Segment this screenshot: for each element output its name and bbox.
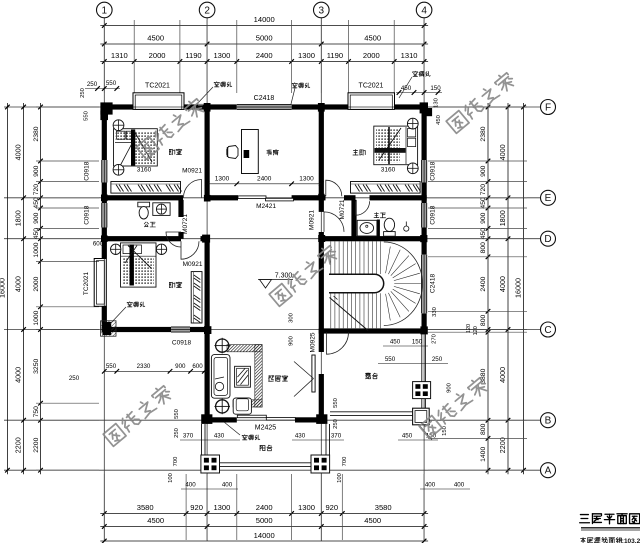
ac hole label top-mid with leader — [294, 82, 296, 85]
column axis4/D — [420, 235, 427, 242]
svg-text:400: 400 — [454, 482, 465, 489]
staircase centre island — [329, 274, 384, 292]
axis circle A — [541, 463, 556, 478]
door M0921 hall to master corridor (in wall axis3) — [324, 212, 344, 232]
svg-text:1300: 1300 — [299, 176, 314, 183]
svg-text:D: D — [544, 234, 551, 245]
wall axis3 vertical M0925 to B — [319, 374, 324, 423]
bed master bedroom — [374, 126, 418, 165]
wall left axis1 upper — [102, 104, 107, 160]
right dimension line col3 16000 — [523, 103, 525, 474]
svg-text:TC2021: TC2021 — [359, 83, 384, 90]
svg-text:800: 800 — [480, 242, 487, 254]
svg-text:14000: 14000 — [254, 15, 275, 24]
level mark 7.300 — [258, 279, 293, 281]
top extension lines — [103, 20, 105, 93]
bottom dimension line row3 14000 — [100, 540, 428, 542]
svg-text:2000: 2000 — [33, 276, 40, 291]
svg-text:2000: 2000 — [363, 51, 380, 60]
svg-text:1300: 1300 — [213, 51, 230, 60]
svg-text:800: 800 — [480, 423, 487, 435]
watermark tuzhizhijia 2 — [268, 243, 339, 306]
right extension lines — [428, 106, 527, 108]
svg-text:2380: 2380 — [480, 126, 487, 141]
wall master bath west — [351, 200, 356, 239]
svg-text:1190: 1190 — [185, 51, 201, 60]
balcony side rails west — [201, 424, 203, 456]
wall axis3 vertical door to C — [319, 232, 324, 330]
svg-text:2330: 2330 — [137, 363, 151, 370]
wall axis2 vertical F to E — [205, 104, 210, 197]
wall top F left segment — [102, 104, 133, 109]
svg-text:450: 450 — [480, 197, 487, 209]
svg-text:550: 550 — [333, 398, 339, 408]
svg-text:370: 370 — [331, 433, 342, 440]
wall right axis4 mid — [422, 183, 427, 204]
svg-text:14000: 14000 — [254, 531, 275, 540]
grid line axis A horizontal — [4, 469, 540, 471]
bottom dimension line row1 subdivisions — [100, 513, 428, 515]
toilet master bath — [384, 218, 394, 231]
svg-text:250: 250 — [80, 88, 86, 98]
floor drain master bath — [405, 222, 407, 227]
svg-text:F: F — [545, 102, 551, 113]
column axis1/C with hatch — [101, 321, 116, 336]
bottom dimension line row2 4500 5000 4500 — [100, 526, 428, 528]
svg-text:250: 250 — [432, 356, 443, 363]
window C0918 left wall public bath — [102, 203, 107, 228]
wall E right (master south) segments with door openings — [319, 195, 326, 200]
column axis2/F — [204, 103, 211, 112]
axis circle B — [541, 413, 556, 428]
column axis3/B (balcony NE) — [316, 414, 327, 424]
grid line axis 1 vertical — [103, 18, 105, 541]
svg-text:2380: 2380 — [33, 126, 40, 141]
svg-text:1300: 1300 — [215, 176, 230, 183]
svg-text:450: 450 — [402, 433, 413, 440]
svg-text:2200: 2200 — [33, 437, 40, 452]
svg-text:600: 600 — [93, 241, 104, 248]
svg-text:B: B — [545, 416, 552, 427]
wall C bedroom3 south right segment — [190, 327, 210, 332]
staircase winder treads fan — [386, 247, 391, 274]
svg-text:250: 250 — [69, 375, 80, 382]
svg-text::103.2: :103.2 — [622, 538, 640, 543]
svg-text:C0918: C0918 — [430, 161, 437, 181]
wall left axis1 below second window — [102, 228, 107, 259]
svg-text:450: 450 — [436, 115, 442, 125]
svg-text:C0918: C0918 — [430, 205, 437, 225]
window C0918 right wall master bedroom — [422, 160, 427, 183]
title third floor plan — [580, 514, 588, 516]
axis circle C — [541, 322, 556, 337]
svg-text:3: 3 — [319, 5, 325, 16]
svg-text:750: 750 — [33, 406, 40, 418]
balcony column SW 4-dot — [201, 455, 220, 473]
svg-text:7.300: 7.300 — [275, 273, 293, 280]
svg-text:430: 430 — [295, 433, 306, 440]
wall top F between bay and window C2418 — [184, 104, 237, 109]
staircase outer curve — [384, 242, 423, 326]
svg-text:1: 1 — [102, 5, 108, 16]
ac hole label balcony with leader — [244, 434, 246, 437]
svg-text:900: 900 — [480, 165, 487, 177]
svg-text:C2418: C2418 — [430, 274, 437, 294]
grid line axis 4 vertical — [423, 18, 425, 541]
column axis3/D — [318, 235, 325, 242]
svg-text:1300: 1300 — [298, 503, 315, 512]
window C0918 right wall master bath — [422, 203, 427, 228]
right dimension line col1 subdivisions — [487, 103, 489, 474]
door M2425 living south sliding — [237, 415, 266, 418]
terrace south rail — [330, 411, 413, 413]
tea table living room — [235, 366, 251, 387]
column axis3/E — [318, 194, 324, 200]
axis circle 4 — [416, 2, 432, 18]
watermark tuzhizhijia 1 — [445, 70, 516, 133]
svg-text:2000: 2000 — [149, 51, 166, 60]
svg-text:1400: 1400 — [480, 447, 487, 462]
door at stair bottom corner — [327, 332, 349, 354]
wall E study south left segment — [205, 195, 239, 200]
wall D right (stair north) — [319, 236, 427, 241]
svg-text:2200: 2200 — [498, 437, 507, 453]
svg-text:130: 130 — [434, 98, 440, 108]
desk study — [242, 130, 259, 174]
svg-text:920: 920 — [190, 503, 203, 512]
wall right axis4 below stair window — [422, 313, 427, 332]
svg-text:TC2021: TC2021 — [83, 272, 90, 296]
svg-text:550: 550 — [174, 409, 180, 419]
watermark tuzhizhijia 4 — [418, 375, 489, 438]
door M0921 bedroom3 (in wall D) — [181, 241, 199, 259]
svg-text:C0918: C0918 — [84, 205, 91, 225]
grid line axis E horizontal — [4, 197, 540, 199]
label study — [267, 149, 271, 151]
column axis4/C — [420, 326, 427, 334]
svg-text:700: 700 — [173, 457, 179, 467]
svg-text:C2418: C2418 — [254, 95, 275, 102]
svg-text:M2421: M2421 — [256, 203, 276, 210]
svg-text:16000: 16000 — [0, 278, 7, 298]
svg-text:100: 100 — [337, 473, 343, 483]
svg-text:720: 720 — [480, 184, 487, 196]
bed bedroom3 — [121, 243, 157, 287]
single chair living room — [233, 398, 251, 414]
svg-text:1800: 1800 — [14, 210, 23, 226]
grid line axis 3 vertical — [320, 18, 322, 541]
svg-text:270: 270 — [432, 334, 438, 344]
column axis2/B (balcony NW) — [201, 414, 212, 424]
svg-text:4000: 4000 — [14, 276, 23, 292]
door M0721 public bath — [166, 232, 181, 247]
door M2421 study sliding — [238, 196, 266, 199]
svg-text:3160: 3160 — [381, 167, 396, 174]
svg-text:2400: 2400 — [257, 176, 272, 183]
svg-text:2: 2 — [204, 5, 210, 16]
axis circle F — [541, 100, 556, 115]
nightstand circles bedroom1 — [113, 120, 124, 131]
nightstand circles master — [407, 118, 418, 129]
svg-text:1000: 1000 — [33, 242, 40, 257]
svg-text:2400: 2400 — [256, 503, 273, 512]
column axis2/C — [204, 326, 211, 334]
svg-text:370: 370 — [183, 433, 194, 440]
wall top F right segment — [395, 104, 427, 109]
svg-text:120: 120 — [466, 324, 472, 333]
label bedroom1 — [168, 149, 170, 154]
svg-text:3580: 3580 — [375, 503, 392, 512]
svg-text:700: 700 — [342, 457, 348, 467]
svg-text:M0925: M0925 — [310, 332, 317, 352]
svg-text:C0918: C0918 — [84, 161, 91, 181]
svg-text:4000: 4000 — [498, 367, 507, 383]
grid line axis 2 vertical — [206, 18, 208, 541]
subtitle floor area — [581, 538, 586, 540]
wall B living south left of door — [205, 417, 237, 422]
bed bedroom1 — [114, 129, 158, 166]
label bedroom3 — [168, 282, 170, 287]
wall C bedroom3 south left segment — [102, 327, 171, 332]
wall left axis1 below bay to C — [102, 306, 107, 332]
svg-text:5000: 5000 — [256, 34, 273, 43]
wall master bath partition — [377, 220, 380, 237]
wall C stair south — [319, 328, 427, 333]
door M0921 master bedroom (in wall E) — [326, 180, 342, 196]
wall top F between window and right bay — [292, 104, 348, 109]
terrace corner column open square — [413, 408, 430, 425]
right dimension line col2 — [507, 103, 509, 474]
svg-text:1310: 1310 — [401, 51, 418, 60]
balcony side rails east — [325, 424, 327, 456]
svg-text:1310: 1310 — [111, 51, 128, 60]
axis circle E — [541, 190, 556, 205]
grid line axis D horizontal — [4, 238, 540, 240]
axis circle 1 — [97, 2, 113, 18]
window C2418 right wall staircase — [422, 255, 427, 314]
svg-text:900: 900 — [175, 363, 186, 370]
svg-text:900: 900 — [289, 336, 295, 346]
svg-text:M0721: M0721 — [339, 199, 346, 219]
grid line axis B horizontal — [4, 419, 540, 421]
axis circle 3 — [314, 2, 330, 18]
watermark tuzhizhijia 3 — [102, 383, 173, 446]
terrace east rail — [421, 334, 423, 382]
label master bedroom — [355, 149, 357, 152]
svg-text:TC2021: TC2021 — [145, 83, 170, 90]
wall E left (bedroom1 south) — [104, 195, 183, 200]
svg-text:450: 450 — [390, 339, 401, 346]
column circle living NW — [216, 339, 229, 352]
svg-text:720: 720 — [33, 184, 40, 196]
svg-text:450: 450 — [33, 228, 40, 240]
wall D left (bedroom3 north) — [102, 236, 181, 241]
wall axis3 vertical C to M0925 — [319, 330, 324, 353]
svg-text:M2425: M2425 — [255, 425, 277, 432]
svg-text:120: 120 — [473, 326, 479, 335]
wardrobe master — [351, 182, 421, 194]
column axis3/F — [318, 103, 325, 112]
door M0921 bedroom1 (in wall E) — [184, 180, 202, 198]
ac hole label top-right with leader — [414, 70, 416, 73]
svg-text:430: 430 — [214, 433, 225, 440]
column axis2/D — [202, 235, 210, 243]
grid line axis C horizontal — [4, 329, 540, 331]
svg-text:4: 4 — [421, 5, 427, 16]
ac hole label top-left with leader — [216, 81, 218, 84]
bay window TC2021 top-right — [348, 93, 395, 110]
staircase break line — [330, 298, 369, 331]
svg-text:900: 900 — [480, 212, 487, 224]
left dimension line col2 — [23, 103, 25, 474]
axis circle 2 — [199, 2, 215, 18]
wall axis2 vertical D to C — [205, 239, 210, 330]
wall axis3 vertical E to door — [319, 198, 324, 212]
label public bath — [144, 222, 145, 224]
svg-text:M0921: M0921 — [183, 261, 203, 268]
monitor on desk — [244, 150, 250, 158]
svg-text:900: 900 — [447, 383, 453, 393]
svg-text:M0921: M0921 — [309, 210, 316, 230]
svg-text:M0921: M0921 — [182, 168, 202, 175]
svg-text:1000: 1000 — [33, 310, 40, 325]
svg-text:450: 450 — [33, 197, 40, 209]
svg-text:C0918: C0918 — [172, 340, 192, 347]
chair study — [227, 146, 238, 159]
svg-text:330: 330 — [432, 307, 438, 317]
svg-text:4500: 4500 — [147, 516, 164, 525]
label master bath — [375, 212, 377, 215]
svg-text:450: 450 — [480, 228, 487, 240]
svg-text:2400: 2400 — [256, 51, 273, 60]
wall E study south right segment — [292, 195, 322, 200]
svg-text:M0721: M0721 — [182, 214, 189, 234]
terrace column 4-dot east — [413, 382, 431, 399]
label terrace — [366, 372, 370, 374]
left dimension line col1 16000 — [6, 103, 8, 474]
column axis1/D — [101, 235, 108, 242]
sink master bath — [357, 220, 377, 236]
bottom extension lines — [103, 474, 105, 540]
top dimension line row1 14000 — [100, 25, 428, 27]
svg-text:900: 900 — [33, 212, 40, 224]
svg-text:600: 600 — [192, 363, 203, 370]
grid line axis F horizontal — [4, 106, 540, 108]
svg-text:800: 800 — [480, 315, 487, 327]
svg-text:550: 550 — [84, 111, 90, 121]
wardrobe bedroom1 — [111, 182, 181, 194]
column axis2/E — [204, 195, 211, 202]
svg-text:4000: 4000 — [14, 367, 23, 383]
bay window TC2021 bedroom3 west — [94, 259, 106, 307]
svg-text:900: 900 — [33, 165, 40, 177]
wardrobe bedroom3 — [191, 272, 202, 323]
svg-text:4500: 4500 — [147, 34, 164, 43]
sofa living room — [211, 355, 230, 399]
door M0925 living room east: leaf and arrow — [312, 355, 315, 392]
svg-text:250: 250 — [174, 428, 180, 438]
wall B living south right of door — [295, 417, 324, 422]
wall axis2 vertical C to B (living west) — [205, 330, 210, 418]
window C0918 in wall C of bedroom3 — [171, 327, 190, 332]
svg-text:3580: 3580 — [137, 503, 154, 512]
svg-text:1190: 1190 — [327, 51, 343, 60]
svg-text:400: 400 — [185, 482, 196, 489]
svg-text:1800: 1800 — [498, 210, 507, 226]
interior dim row bedroom3 550 2330 900 600 — [104, 370, 207, 372]
svg-text:450: 450 — [401, 85, 412, 92]
top dimension line row2 4500 5000 4500 — [100, 43, 428, 45]
column axis1/E — [101, 195, 108, 202]
top dimension line row3 subdivisions — [100, 61, 428, 63]
svg-text:550: 550 — [106, 363, 117, 370]
svg-text:3160: 3160 — [137, 167, 152, 174]
window C2418 top (study north) — [237, 104, 292, 109]
svg-text:4000: 4000 — [498, 144, 507, 160]
bay window TC2021 top-left — [133, 93, 184, 110]
staircase treads left flights — [330, 241, 332, 274]
svg-text:920: 920 — [325, 503, 338, 512]
svg-text:4000: 4000 — [498, 276, 507, 292]
svg-text:400: 400 — [222, 482, 233, 489]
left extension lines — [36, 106, 99, 108]
sink public bath — [153, 203, 170, 216]
svg-text:4000: 4000 — [14, 144, 23, 160]
column axis4/F corner — [420, 102, 428, 113]
svg-text:300: 300 — [289, 313, 295, 323]
wall right axis4 upper — [422, 104, 427, 160]
column axis1/F corner — [100, 102, 112, 114]
svg-text:550: 550 — [385, 356, 396, 363]
ac hole label bedroom3 with leader — [129, 301, 131, 304]
wall axis3 vertical F to E (study east) — [319, 104, 324, 197]
balcony column SE 4-dot — [311, 455, 330, 473]
door M0721 master bath (in wall E) — [356, 201, 370, 215]
svg-text:16000: 16000 — [514, 278, 523, 298]
left dimension line col3 subdivisions — [40, 103, 42, 474]
svg-text:250: 250 — [333, 419, 339, 429]
column circle living SW — [216, 400, 229, 413]
nightstand circles bedroom3 — [111, 244, 121, 254]
wall left axis1 between windows — [102, 183, 107, 204]
svg-text:550: 550 — [106, 80, 117, 87]
svg-text:3250: 3250 — [33, 359, 40, 374]
svg-text:250: 250 — [87, 81, 98, 88]
svg-text:1300: 1300 — [213, 503, 230, 512]
svg-text:1300: 1300 — [298, 51, 315, 60]
window C0918 left wall bedroom1 — [102, 160, 107, 183]
svg-text:5000: 5000 — [256, 516, 273, 525]
svg-text:E: E — [545, 193, 552, 204]
svg-text:C: C — [544, 325, 551, 336]
svg-text:4500: 4500 — [364, 516, 381, 525]
TV feature wall hatched — [227, 345, 262, 352]
label living room — [269, 375, 271, 377]
watermark tuzhizhijia 5 — [135, 96, 206, 159]
toilet public bath — [138, 202, 150, 207]
svg-text:A: A — [545, 466, 552, 477]
label balcony — [259, 445, 261, 450]
interior dim row study bottom 1300 2400 1300 — [207, 183, 321, 185]
wall right axis4 below C0918 — [422, 228, 427, 255]
svg-text:400: 400 — [425, 482, 436, 489]
balcony front rail — [220, 462, 312, 464]
svg-text:2200: 2200 — [14, 437, 23, 453]
svg-text:2400: 2400 — [480, 276, 487, 291]
axis circle D — [541, 231, 556, 246]
svg-text:150: 150 — [412, 339, 423, 346]
svg-text:4500: 4500 — [364, 34, 381, 43]
